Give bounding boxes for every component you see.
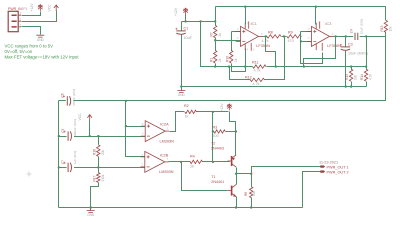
- svg-text:15k: 15k: [388, 26, 392, 32]
- svg-text:T1: T1: [211, 175, 215, 179]
- +12V supply symbol (rail): [185, 8, 187, 15]
- wire R10 top to IC1 +in: [232, 31, 241, 33]
- junction R14 riser top: [365, 35, 367, 37]
- svg-text:R15: R15: [380, 25, 384, 31]
- junction IC2B out/T1 base: [180, 161, 182, 163]
- resistor R14: [364, 69, 367, 81]
- junction R16 top: [97, 135, 99, 137]
- wire T1 base: [182, 162, 228, 191]
- resistor R15: [384, 20, 387, 32]
- junction VCC/C5 row: [89, 135, 91, 137]
- wire C1 top lead: [181, 22, 183, 31]
- wire divider riser x200: [201, 22, 230, 67]
- wire R16 top lead: [98, 137, 100, 145]
- wire feedback row a: [230, 66, 253, 68]
- svg-text:C4: C4: [350, 29, 354, 33]
- wire R12 left riser: [230, 67, 251, 80]
- svg-text:470uF (10V): 470uF (10V): [72, 89, 76, 106]
- junction R8/R9/R12: [283, 35, 285, 37]
- junction rail/R7: [214, 20, 216, 22]
- svg-text:4.7k: 4.7k: [253, 82, 260, 86]
- wire left bus: [58, 101, 60, 208]
- connector pins: [12, 15, 17, 27]
- wire R6 top lead: [251, 174, 253, 187]
- svg-text:C6: C6: [61, 93, 65, 97]
- wire GND2 stub: [181, 87, 183, 91]
- svg-text:GND: GND: [87, 213, 95, 217]
- svg-text:2k: 2k: [218, 33, 222, 37]
- svg-text:IC2A: IC2A: [160, 123, 169, 127]
- svg-text:R10: R10: [225, 56, 229, 62]
- wire R1 top lead: [215, 41, 217, 51]
- wire R10 top lead: [231, 32, 233, 51]
- svg-text:+12V: +12V: [220, 103, 224, 112]
- svg-text:R6: R6: [244, 192, 248, 196]
- wire R12 right riser: [265, 37, 285, 80]
- svg-text:LM393N: LM393N: [160, 139, 175, 143]
- wire output loop to C6 row: [59, 37, 386, 101]
- resistor R10: [230, 50, 233, 63]
- svg-text:470: 470: [288, 39, 294, 43]
- svg-text:Max FET voltage==18V with 12V: Max FET voltage==18V with 12V input: [5, 55, 80, 60]
- op-amp IC3: [312, 26, 330, 46]
- wire collector node: [237, 173, 252, 175]
- wire pin2 to VCC: [22, 11, 57, 22]
- svg-text:LF356N: LF356N: [327, 44, 341, 48]
- transistor T1: [231, 186, 233, 196]
- junction IC3 out: [334, 35, 336, 37]
- wire R17 bottom to GND row: [91, 183, 99, 208]
- transistor T2: [231, 156, 233, 166]
- junction R13 top: [350, 65, 352, 67]
- connector pin stubs: [18, 15, 21, 27]
- svg-text:C3: C3: [348, 42, 353, 46]
- junction R14 top: [365, 65, 367, 67]
- svg-text:R4: R4: [190, 155, 195, 159]
- wire IC2A out: [170, 112, 185, 132]
- resistor R1: [214, 50, 217, 63]
- comparator IC2A: [145, 121, 165, 142]
- junction IC1 out: [265, 35, 267, 37]
- junction R16/R17/C7 row: [97, 166, 99, 168]
- svg-text:GND: GND: [37, 38, 45, 42]
- svg-text:R9: R9: [288, 31, 293, 35]
- wire IC3 -in: [301, 41, 312, 43]
- junction riser/IC2A +in: [125, 125, 127, 127]
- resistor R16: [97, 145, 100, 156]
- junction C6 row/riser: [125, 100, 127, 102]
- junction T2/T1 collectors: [235, 173, 237, 175]
- junction riser/R4: [212, 161, 214, 163]
- svg-text:+12V: +12V: [30, 3, 34, 12]
- junction R1/feedback row: [214, 65, 216, 67]
- svg-text:LF356N: LF356N: [256, 44, 270, 48]
- wire R2 to +12V: [197, 111, 229, 113]
- wire pin1 to GND: [22, 27, 41, 35]
- ground GND3: [87, 211, 95, 213]
- wire R14 riser: [366, 37, 368, 70]
- resistor R8: [267, 35, 281, 38]
- wire T2 collector down: [236, 168, 238, 174]
- svg-text:JP1: JP1: [22, 7, 28, 11]
- svg-text:1uF (104): 1uF (104): [73, 151, 77, 164]
- svg-text:3: 3: [20, 12, 22, 16]
- svg-text:VCC ranges from 0 to 5V: VCC ranges from 0 to 5V: [5, 44, 54, 49]
- junction R2/riser: [212, 111, 214, 113]
- resistor R4: [190, 160, 202, 163]
- wire +12V to T2 emitter: [230, 112, 236, 156]
- junction R3/emitter node: [235, 130, 237, 132]
- C7 wire gap: [67, 166, 74, 168]
- svg-text:2: 2: [20, 18, 22, 22]
- svg-text:R3: R3: [213, 126, 218, 130]
- label flag PWR_OUT 2: [320, 170, 325, 172]
- C5 wire gap: [67, 135, 74, 137]
- resistor R7: [214, 25, 217, 37]
- svg-text:IC3: IC3: [326, 22, 332, 26]
- wire node A to IC1 -in: [216, 40, 241, 42]
- junction C3 top: [345, 35, 347, 37]
- label flag PWR_OUT 1: [320, 165, 325, 167]
- wire IC1 out: [263, 36, 267, 38]
- +12V supply symbol (comparator): [228, 104, 230, 111]
- wire to IC2A +in: [126, 126, 146, 128]
- wire R15 bottom lead: [385, 33, 387, 37]
- capacitor C3: [341, 46, 350, 48]
- wire R7 bottom lead: [215, 38, 217, 41]
- svg-text:C5: C5: [61, 128, 65, 132]
- resistor R6: [250, 187, 253, 198]
- C6 wire gap: [66, 100, 73, 102]
- wire IC3 out row: [334, 36, 386, 38]
- wire IC3 +in: [301, 31, 312, 33]
- wire C5 row: [59, 136, 146, 138]
- junction IC3 -in node: [300, 40, 302, 42]
- junction rail/divider: [199, 20, 201, 22]
- capacitor C4: [355, 33, 358, 40]
- wire R10 bottom to V-: [232, 49, 246, 72]
- svg-text:R14: R14: [360, 74, 364, 80]
- capacitor C1: [176, 30, 185, 32]
- capacitor C5: [67, 131, 69, 140]
- op-amp IC1: [241, 26, 259, 46]
- wire IC2B out: [169, 161, 191, 163]
- junction GND row/C1: [180, 85, 182, 87]
- wire R3 right: [226, 131, 236, 133]
- wire R9 node vertical: [300, 32, 302, 42]
- connector JP1 PWR_IN: [8, 11, 18, 31]
- wire R1 bottom lead: [215, 64, 217, 67]
- wire T1 collector up: [236, 174, 238, 185]
- junction R6 top: [250, 173, 252, 175]
- junction feedback/R11: [275, 65, 277, 67]
- capacitor C6: [66, 96, 68, 105]
- junction bus/C7 row: [58, 166, 60, 168]
- wire T1 emitter down: [236, 197, 238, 208]
- svg-text:960uF (10V): 960uF (10V): [73, 119, 77, 136]
- svg-text:10uF (MKS): 10uF (MKS): [348, 52, 368, 56]
- wire C7 row: [59, 167, 145, 169]
- junction R6/GND row: [250, 206, 252, 208]
- wire bottom GND row: [59, 207, 303, 209]
- svg-text:11-23-2021: 11-23-2021: [319, 160, 338, 164]
- svg-text:R12: R12: [245, 76, 252, 80]
- svg-text:VCC: VCC: [48, 4, 52, 12]
- svg-text:4.7k: 4.7k: [254, 69, 261, 73]
- svg-text:10uF (105): 10uF (105): [360, 19, 364, 34]
- junction bus/C5 row: [58, 135, 60, 137]
- svg-text:10uF: 10uF: [184, 36, 193, 40]
- svg-text:2N4401: 2N4401: [211, 180, 224, 184]
- svg-text:PWR_IN: PWR_IN: [8, 7, 22, 11]
- svg-text:2k: 2k: [218, 58, 222, 62]
- wire C1 bottom to GND row: [181, 35, 183, 87]
- svg-text:R13: R13: [345, 74, 349, 80]
- junction top rail/IC1 V+: [244, 6, 246, 8]
- wire R13 top lead: [351, 67, 353, 70]
- +12V supply symbol (top-left): [39, 5, 41, 12]
- wire R8-R9: [282, 36, 287, 38]
- wire R4 to T2 base: [203, 161, 230, 163]
- svg-text:100: 100: [213, 134, 219, 138]
- C4 wire gap: [353, 35, 359, 37]
- resistor R11: [253, 65, 266, 68]
- svg-text:1k: 1k: [234, 58, 238, 62]
- wire IC1 V+ riser: [245, 7, 247, 25]
- wire R6 bottom lead: [251, 198, 253, 208]
- junction GND3: [90, 206, 92, 208]
- svg-text:1: 1: [20, 23, 22, 27]
- wire VCC stem: [89, 121, 91, 137]
- svg-text:C7: C7: [61, 160, 65, 164]
- svg-text:0V=off, 5V=on: 0V=off, 5V=on: [5, 49, 33, 54]
- wire riser R2-R4: [212, 112, 214, 162]
- VCC supply symbol (top-left): [55, 5, 57, 11]
- wire R16 bottom lead: [98, 157, 100, 168]
- junction T1 emitter/GND row: [235, 206, 237, 208]
- svg-text:+12V: +12V: [174, 7, 178, 16]
- svg-text:R2: R2: [184, 104, 189, 108]
- svg-text:R8: R8: [268, 31, 273, 35]
- svg-text:C1: C1: [184, 26, 189, 30]
- svg-text:IC1: IC1: [251, 22, 257, 26]
- wire feedback row b: [267, 66, 367, 68]
- comparator IC2B: [145, 151, 165, 172]
- wire R14 bottom lead: [366, 82, 368, 87]
- wire top rail: [216, 7, 386, 21]
- wire R9 out: [301, 36, 302, 38]
- wire PWR_OUT 1: [252, 167, 321, 174]
- capacitor C7: [67, 163, 69, 172]
- junction R12 riser: [228, 65, 230, 67]
- svg-text:IC2B: IC2B: [160, 153, 169, 157]
- resistor R3: [214, 130, 225, 133]
- wire pin3 to +12V: [22, 12, 41, 16]
- resistor R2: [185, 110, 197, 113]
- wire PWR_OUT 2: [303, 172, 321, 208]
- wire C3 top lead: [345, 37, 347, 47]
- svg-text:1k: 1k: [190, 165, 194, 169]
- wire GND3 stub: [90, 208, 92, 211]
- svg-text:R11: R11: [252, 60, 259, 64]
- wire R7 top lead: [215, 22, 217, 26]
- ground GND1: [36, 35, 44, 37]
- svg-text:R17: R17: [92, 175, 96, 181]
- junction rail/+12V: [184, 20, 186, 22]
- ground GND2: [177, 91, 185, 93]
- junction R13/GND row: [350, 85, 352, 87]
- svg-text:4.7k: 4.7k: [369, 74, 373, 80]
- wire -in to balance stub: [301, 42, 323, 64]
- svg-text:LM393N: LM393N: [159, 170, 174, 174]
- svg-text:T2: T2: [211, 142, 215, 146]
- svg-text:R16: R16: [92, 149, 96, 155]
- svg-text:2N4403: 2N4403: [211, 147, 224, 151]
- wire R13 bottom lead: [351, 82, 353, 87]
- svg-text:1k: 1k: [185, 115, 189, 119]
- wire IC3 out feedback: [304, 37, 336, 67]
- svg-text:R7: R7: [209, 32, 213, 36]
- svg-text:910k: 910k: [101, 174, 105, 181]
- junction IC3 fb/row: [303, 65, 305, 67]
- wire IC3 V+ riser: [315, 7, 317, 25]
- svg-text:20k: 20k: [101, 149, 105, 155]
- wire IC1 out feedback: [266, 37, 276, 67]
- wire C3 bottom lead: [345, 51, 347, 87]
- resistor R12: [250, 78, 264, 81]
- wire riser to IC2B +in: [126, 101, 145, 157]
- wire rail y21: [182, 21, 216, 23]
- wire +12V stem: [185, 15, 187, 22]
- junction C3/GND row: [345, 85, 347, 87]
- resistor R13: [349, 69, 352, 81]
- wire R17 top lead: [98, 168, 100, 173]
- svg-text:10k: 10k: [252, 190, 256, 196]
- junction top rail/IC3 V+: [315, 6, 317, 8]
- svg-text:PWR_OUT 1: PWR_OUT 1: [327, 166, 349, 170]
- VCC supply symbol (mid): [89, 115, 91, 121]
- svg-text:R1: R1: [209, 58, 213, 62]
- svg-text:GND: GND: [178, 93, 186, 97]
- wire GND row: [182, 86, 367, 88]
- junction node A: [214, 39, 216, 41]
- junction riser/R3: [212, 130, 214, 132]
- svg-text:PWR_OUT 2: PWR_OUT 2: [327, 171, 349, 175]
- svg-text:10k: 10k: [354, 74, 358, 80]
- resistor R17: [97, 173, 100, 183]
- wire rail riser: [215, 7, 217, 22]
- origin cross mark: [27, 172, 32, 177]
- svg-text:VCC: VCC: [78, 113, 82, 121]
- resistor R9: [287, 35, 301, 38]
- junction V- riser/feedback row: [244, 65, 246, 67]
